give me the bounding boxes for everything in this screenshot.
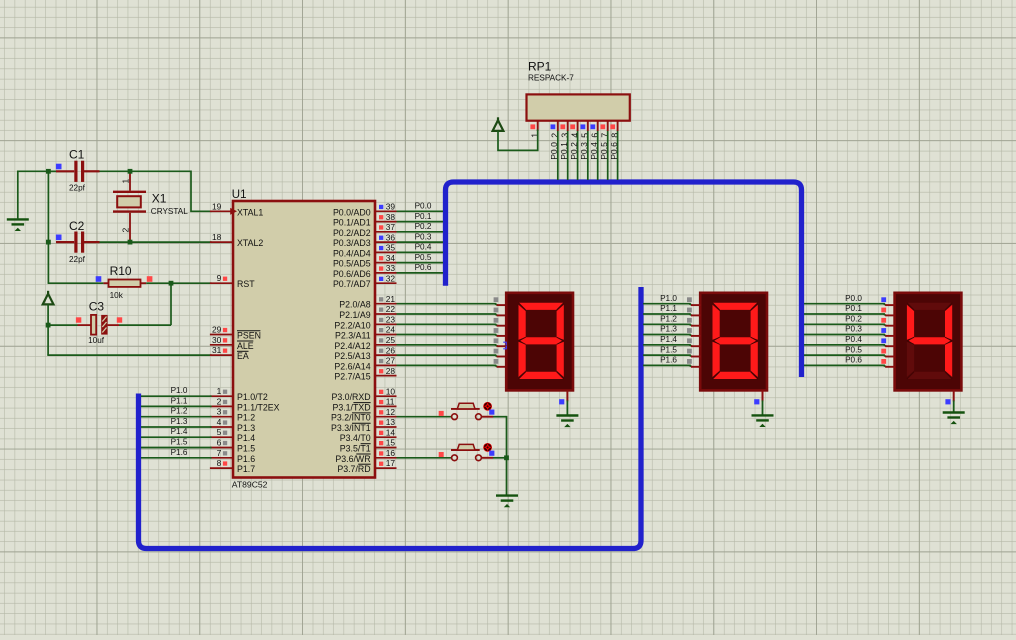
button actuator xyxy=(483,443,492,452)
pin 33 P0.6/AD6 xyxy=(375,272,397,274)
svg-text:RST: RST xyxy=(237,279,255,289)
wire RP1 pin 3 to bus / label P0.1 xyxy=(567,131,569,180)
svg-text:3: 3 xyxy=(560,133,570,138)
svg-text:P0.0/AD0: P0.0/AD0 xyxy=(333,207,371,217)
svg-text:P0.2: P0.2 xyxy=(415,222,432,231)
svg-text:P2.7/A15: P2.7/A15 xyxy=(334,372,370,382)
svg-text:10uf: 10uf xyxy=(88,336,105,345)
svg-text:8: 8 xyxy=(610,133,620,138)
pin 11 P3.1/TXD xyxy=(375,405,397,407)
svg-text:P0.4: P0.4 xyxy=(845,335,862,344)
wire P0.1 U1 to bus xyxy=(397,221,444,223)
pin 30 ALE xyxy=(210,344,233,346)
node RST junction xyxy=(169,281,174,286)
wire P2.5 U1 to DS1 xyxy=(397,354,497,356)
svg-text:2: 2 xyxy=(121,228,131,233)
svg-text:10k: 10k xyxy=(110,291,124,300)
pin 4 of RP1 xyxy=(577,121,579,131)
svg-text:P3.7/RD: P3.7/RD xyxy=(337,464,370,474)
svg-text:P3.2/INT0: P3.2/INT0 xyxy=(331,413,371,423)
svg-text:38: 38 xyxy=(386,212,396,222)
wire P0.0 U1 to bus xyxy=(397,210,444,212)
svg-text:12: 12 xyxy=(386,407,396,417)
svg-text:P0.5: P0.5 xyxy=(599,142,609,160)
svg-text:XTAL2: XTAL2 xyxy=(237,238,263,248)
pin 14 P3.4/T0 xyxy=(375,436,397,438)
wire P1.1 bus to DS2 xyxy=(643,313,691,315)
svg-text:23: 23 xyxy=(386,315,396,325)
wire buttons common down xyxy=(506,416,508,496)
pin 22 P2.1/A9 xyxy=(375,313,397,315)
svg-text:P0.5/AD5: P0.5/AD5 xyxy=(333,259,371,269)
svg-text:P1.5: P1.5 xyxy=(660,345,677,354)
svg-text:6: 6 xyxy=(217,438,222,448)
svg-text:31: 31 xyxy=(212,345,222,355)
wire P1.3 U1 to bus xyxy=(141,426,212,428)
svg-text:C3: C3 xyxy=(89,300,105,314)
svg-text:P1.4: P1.4 xyxy=(171,427,188,436)
svg-text:P1.3: P1.3 xyxy=(660,325,677,334)
svg-text:PSEN: PSEN xyxy=(237,331,261,341)
svg-text:P0.1: P0.1 xyxy=(415,212,432,221)
svg-text:P0.1/AD1: P0.1/AD1 xyxy=(333,218,371,228)
svg-text:P0.6: P0.6 xyxy=(415,263,432,272)
svg-text:P1.1: P1.1 xyxy=(171,396,188,405)
pin 28 P2.7/A15 xyxy=(375,375,397,377)
svg-text:24: 24 xyxy=(386,325,396,335)
svg-text:P0.1: P0.1 xyxy=(845,304,862,313)
svg-text:26: 26 xyxy=(386,345,396,355)
bus P0 from U1 P0 pins to RP1 and display DS3 xyxy=(446,182,802,377)
pin 7 P1.6 xyxy=(210,457,233,459)
svg-text:30: 30 xyxy=(212,335,222,345)
svg-text:P2.6/A14: P2.6/A14 xyxy=(334,361,370,371)
svg-text:X1: X1 xyxy=(152,191,167,205)
svg-text:22pf: 22pf xyxy=(69,255,86,264)
svg-text:P0.6: P0.6 xyxy=(609,142,619,160)
pin 15 P3.5/T1 xyxy=(375,447,397,449)
svg-text:U1: U1 xyxy=(232,189,247,201)
svg-text:P0.4: P0.4 xyxy=(415,243,432,252)
wire P2.4 U1 to DS1 xyxy=(397,344,497,346)
wire button to gnd rail xyxy=(481,457,493,459)
svg-text:36: 36 xyxy=(386,232,396,242)
pin 12 P3.2/INT0 xyxy=(375,416,397,418)
pin 39 P0.0/AD0 xyxy=(375,210,397,212)
wire P1.5 bus to DS2 xyxy=(643,354,691,356)
pin 35 P0.4/AD4 xyxy=(375,251,397,253)
svg-text:P3.0/RXD: P3.0/RXD xyxy=(331,392,370,402)
wire P0.1 bus to DS3 xyxy=(804,313,885,315)
wire P2.1 U1 to DS1 xyxy=(397,313,497,315)
capacitor C1 xyxy=(48,170,74,172)
svg-text:21: 21 xyxy=(386,294,396,304)
svg-text:P0.4: P0.4 xyxy=(589,142,599,160)
svg-text:P3.4/T0: P3.4/T0 xyxy=(340,433,371,443)
svg-text:RP1: RP1 xyxy=(528,59,552,73)
crystal X1 xyxy=(113,191,146,193)
display DS1 origin mark xyxy=(503,342,506,349)
svg-text:29: 29 xyxy=(212,325,222,335)
svg-text:P0.0: P0.0 xyxy=(549,142,559,160)
svg-text:34: 34 xyxy=(386,253,396,263)
svg-text:7: 7 xyxy=(217,448,222,458)
svg-text:P3.5/T1: P3.5/T1 xyxy=(340,444,371,454)
svg-text:P0.2/AD2: P0.2/AD2 xyxy=(333,228,371,238)
svg-text:P1.1: P1.1 xyxy=(660,304,677,313)
svg-text:P1.4: P1.4 xyxy=(660,335,677,344)
svg-text:25: 25 xyxy=(386,335,396,345)
pin 38 P0.1/AD1 xyxy=(375,221,397,223)
push button xyxy=(452,414,458,420)
pin 19 XTAL1 xyxy=(210,210,233,212)
svg-text:P0.2: P0.2 xyxy=(845,315,862,324)
svg-text:8: 8 xyxy=(217,458,222,468)
pin 23 P2.2/A10 xyxy=(375,323,397,325)
svg-text:R10: R10 xyxy=(110,264,132,278)
pin 3 of RP1 xyxy=(567,121,569,131)
svg-text:C2: C2 xyxy=(69,219,85,233)
button actuator xyxy=(483,402,492,411)
node X1 pin1 junction xyxy=(128,169,133,174)
mcu U1 AT89C52 body xyxy=(233,201,375,478)
pin 6 P1.5 xyxy=(210,447,233,449)
svg-text:5: 5 xyxy=(217,427,222,437)
wire P0.4 bus to DS3 xyxy=(804,344,885,346)
svg-text:P1.6: P1.6 xyxy=(660,356,677,365)
svg-text:5: 5 xyxy=(580,133,590,138)
pin 36 P0.3/AD3 xyxy=(375,241,397,243)
svg-text:P3.1/TXD: P3.1/TXD xyxy=(332,402,370,412)
pin 3 P1.2 xyxy=(210,416,233,418)
push button xyxy=(452,455,458,461)
wire P0.3 U1 to bus xyxy=(397,241,444,243)
svg-text:11: 11 xyxy=(386,397,395,407)
wire P1.6 U1 to bus xyxy=(141,457,212,459)
wire P1.6 bus to DS2 xyxy=(643,364,691,366)
ground xyxy=(7,218,29,220)
svg-text:P1.2: P1.2 xyxy=(237,413,255,423)
svg-text:P2.5/A13: P2.5/A13 xyxy=(334,351,370,361)
svg-text:AT89C52: AT89C52 xyxy=(232,480,268,490)
svg-text:P1.0: P1.0 xyxy=(171,386,188,395)
capacitor C2 xyxy=(56,241,74,243)
svg-text:P0.2: P0.2 xyxy=(569,142,579,160)
svg-text:P0.4/AD4: P0.4/AD4 xyxy=(333,248,371,258)
svg-text:P2.3/A11: P2.3/A11 xyxy=(335,331,371,341)
svg-text:P0.7/AD7: P0.7/AD7 xyxy=(333,279,371,289)
svg-text:33: 33 xyxy=(386,263,396,273)
pin 5 P1.4 xyxy=(210,436,233,438)
power VCC arrow at RP1 xyxy=(493,120,504,131)
wire C3 right up to RST net xyxy=(119,324,171,326)
svg-text:P1.5: P1.5 xyxy=(171,438,188,447)
svg-text:P1.2: P1.2 xyxy=(660,315,677,324)
svg-text:CRYSTAL: CRYSTAL xyxy=(151,207,188,216)
svg-text:P2.2/A10: P2.2/A10 xyxy=(334,320,370,330)
svg-text:6: 6 xyxy=(590,133,600,138)
pin 10 P3.0/RXD xyxy=(375,395,397,397)
wire P2.3 U1 to DS1 xyxy=(397,334,497,336)
wire VCC to C3 and EA xyxy=(47,304,49,355)
pin 7 of RP1 xyxy=(607,121,609,131)
pin 2 of RP1 xyxy=(557,121,559,131)
node X1 pin2 junction xyxy=(128,240,133,245)
wire P0.2 bus to DS3 xyxy=(804,323,885,325)
svg-text:19: 19 xyxy=(212,201,222,211)
svg-text:P0.5: P0.5 xyxy=(845,345,862,354)
svg-text:1: 1 xyxy=(121,179,131,184)
pin 9 RST xyxy=(210,282,233,284)
svg-text:17: 17 xyxy=(386,458,396,468)
resistor pack RP1 RESPACK-7 body xyxy=(527,94,630,120)
svg-text:4: 4 xyxy=(217,417,222,427)
pin 17 P3.7/RD xyxy=(375,467,397,469)
svg-text:10: 10 xyxy=(386,386,396,396)
wire P1.4 bus to DS2 xyxy=(643,344,691,346)
pin 6 of RP1 xyxy=(597,121,599,131)
wire U1 to button xyxy=(397,416,452,418)
wire RP1 pin 7 to bus / label P0.5 xyxy=(607,131,609,180)
display DS3 digit 4 xyxy=(895,293,962,391)
display DS2 digit 8 xyxy=(700,293,767,391)
svg-text:3: 3 xyxy=(217,407,222,417)
wire P0.5 bus to DS3 xyxy=(804,354,885,356)
wire RP1 pin 6 to bus / label P0.4 xyxy=(597,131,599,180)
svg-text:RESPACK-7: RESPACK-7 xyxy=(528,74,574,83)
wire X1 node to XTAL1 pin 19 xyxy=(130,171,212,211)
pin 31 EA xyxy=(210,354,233,356)
wire R10 right to RST xyxy=(146,282,211,284)
wire P1.5 U1 to bus xyxy=(141,447,212,449)
pin 8 of RP1 xyxy=(617,121,619,131)
svg-text:35: 35 xyxy=(386,243,396,253)
wire P2.0 U1 to DS1 xyxy=(397,303,497,305)
pin 26 P2.5/A13 xyxy=(375,354,397,356)
wire ground to C1 net xyxy=(18,170,74,172)
pin 27 P2.6/A14 xyxy=(375,364,397,366)
resistor R10 xyxy=(103,282,108,284)
wire P0.5 U1 to bus xyxy=(397,262,444,264)
svg-text:P0.3: P0.3 xyxy=(579,142,589,160)
power VCC arrow left xyxy=(43,294,54,305)
svg-text:22pf: 22pf xyxy=(69,183,86,192)
pin 25 P2.4/A12 xyxy=(375,344,397,346)
svg-text:P0.6: P0.6 xyxy=(845,356,862,365)
svg-text:P1.7: P1.7 xyxy=(237,464,255,474)
pin 34 P0.5/AD5 xyxy=(375,262,397,264)
svg-text:P0.6/AD6: P0.6/AD6 xyxy=(333,269,371,279)
pin 4 P1.3 xyxy=(210,426,233,428)
wire RP1 pin 8 to bus / label P0.6 xyxy=(617,131,619,180)
wire P0.3 bus to DS3 xyxy=(804,334,885,336)
pin 18 XTAL2 xyxy=(210,241,233,243)
svg-text:1: 1 xyxy=(217,386,222,396)
svg-text:P1.3: P1.3 xyxy=(237,423,255,433)
svg-text:P2.0/A8: P2.0/A8 xyxy=(339,300,370,310)
wire P0.4 U1 to bus xyxy=(397,251,444,253)
wire RP1 pin 4 to bus / label P0.2 xyxy=(577,131,579,180)
svg-text:P3.3/INT1: P3.3/INT1 xyxy=(331,423,371,433)
svg-text:P0.3/AD3: P0.3/AD3 xyxy=(333,238,371,248)
svg-text:P1.6: P1.6 xyxy=(171,448,188,457)
wire P1.0 bus to DS2 xyxy=(643,303,691,305)
svg-text:P2.4/A12: P2.4/A12 xyxy=(334,341,370,351)
wire C1 to crystal node xyxy=(100,170,131,172)
wire gnd rail down to R10 row xyxy=(47,171,49,283)
svg-text:XTAL1: XTAL1 xyxy=(237,207,263,217)
svg-text:39: 39 xyxy=(386,202,396,212)
svg-text:28: 28 xyxy=(386,366,396,376)
svg-text:P1.4: P1.4 xyxy=(237,433,255,443)
svg-text:P0.3: P0.3 xyxy=(415,232,432,241)
ground buttons xyxy=(496,494,518,496)
svg-text:P0.0: P0.0 xyxy=(415,202,432,211)
wire P0.6 U1 to bus xyxy=(397,272,444,274)
wire P0.0 bus to DS3 xyxy=(804,303,885,305)
wire P0.2 U1 to bus xyxy=(397,231,444,233)
wire P2.2 U1 to DS1 xyxy=(397,323,497,325)
svg-text:P0.5: P0.5 xyxy=(415,253,432,262)
wire P1.2 bus to DS2 xyxy=(643,323,691,325)
display DS1 digit 8 xyxy=(506,293,573,391)
wire P1.0 U1 to bus xyxy=(141,395,212,397)
wire C2 to crystal node and XTAL2 xyxy=(100,241,212,243)
svg-text:2: 2 xyxy=(550,133,560,138)
pin 19 input arrow xyxy=(230,208,237,215)
svg-text:9: 9 xyxy=(217,273,222,283)
svg-text:P2.1/A9: P2.1/A9 xyxy=(339,310,370,320)
svg-text:1: 1 xyxy=(530,133,540,138)
pin 1 of RP1 xyxy=(537,121,539,131)
wire U1 to button xyxy=(397,457,452,459)
svg-text:P0.3: P0.3 xyxy=(845,325,862,334)
svg-text:37: 37 xyxy=(386,222,396,232)
pin 2 P1.1/T2EX xyxy=(210,405,233,407)
wire P1.2 U1 to bus xyxy=(141,416,212,418)
svg-text:22: 22 xyxy=(386,304,396,314)
node gnd-rail junction at C1 xyxy=(46,169,51,174)
pin 5 of RP1 xyxy=(587,121,589,131)
wire RP1 pin 5 to bus / label P0.3 xyxy=(587,131,589,180)
bus P1 from U1 P1 pins to display DS2 xyxy=(139,287,642,549)
wire P1.4 U1 to bus xyxy=(141,436,212,438)
pin 13 P3.3/INT1 xyxy=(375,426,397,428)
svg-text:P1.2: P1.2 xyxy=(171,407,188,416)
pin 29 PSEN xyxy=(210,334,233,336)
svg-text:P0.1: P0.1 xyxy=(559,142,569,160)
wire RP1 pin 2 to bus / label P0.0 xyxy=(557,131,559,180)
capacitor C3 10uf xyxy=(48,324,78,326)
wire RP1 pin1 to VCC xyxy=(498,130,538,151)
svg-text:4: 4 xyxy=(570,133,580,138)
svg-text:P1.0: P1.0 xyxy=(660,294,677,303)
svg-text:15: 15 xyxy=(386,438,396,448)
wire P1.3 bus to DS2 xyxy=(643,334,691,336)
svg-text:P3.6/WR: P3.6/WR xyxy=(335,454,370,464)
node VCC-C3 junction xyxy=(46,323,51,328)
pin 16 P3.6/WR xyxy=(375,457,397,459)
wire P0.6 bus to DS3 xyxy=(804,364,885,366)
pin 24 P2.3/A11 xyxy=(375,334,397,336)
svg-text:EA: EA xyxy=(237,351,249,361)
svg-text:14: 14 xyxy=(386,427,396,437)
svg-text:13: 13 xyxy=(386,417,396,427)
pin 32 P0.7/AD7 xyxy=(375,282,397,284)
svg-text:32: 32 xyxy=(386,273,396,283)
pin 37 P0.2/AD2 xyxy=(375,231,397,233)
svg-text:2: 2 xyxy=(217,396,222,406)
pin 1 P1.0/T2 xyxy=(210,395,233,397)
svg-text:P1.6: P1.6 xyxy=(237,454,255,464)
svg-text:P0.0: P0.0 xyxy=(845,294,862,303)
svg-text:18: 18 xyxy=(212,232,222,242)
svg-text:P1.5: P1.5 xyxy=(237,444,255,454)
wire button to gnd rail xyxy=(481,416,493,418)
node button junction xyxy=(504,455,509,460)
svg-text:C1: C1 xyxy=(69,148,85,162)
svg-text:P1.1/T2EX: P1.1/T2EX xyxy=(237,402,280,412)
svg-text:27: 27 xyxy=(386,356,396,366)
svg-text:16: 16 xyxy=(386,448,396,458)
pin 21 P2.0/A8 xyxy=(375,303,397,305)
pin 8 P1.7 xyxy=(210,467,233,469)
wire P1.1 U1 to bus xyxy=(141,405,212,407)
svg-text:7: 7 xyxy=(600,133,610,138)
svg-text:ALE: ALE xyxy=(237,341,254,351)
svg-text:P1.3: P1.3 xyxy=(171,417,188,426)
wire P2.6 U1 to DS1 xyxy=(397,364,497,366)
wire gnd rail corner to R10 left xyxy=(48,282,104,284)
node gnd-rail junction at C2 xyxy=(46,240,51,245)
svg-text:P1.0/T2: P1.0/T2 xyxy=(237,392,268,402)
